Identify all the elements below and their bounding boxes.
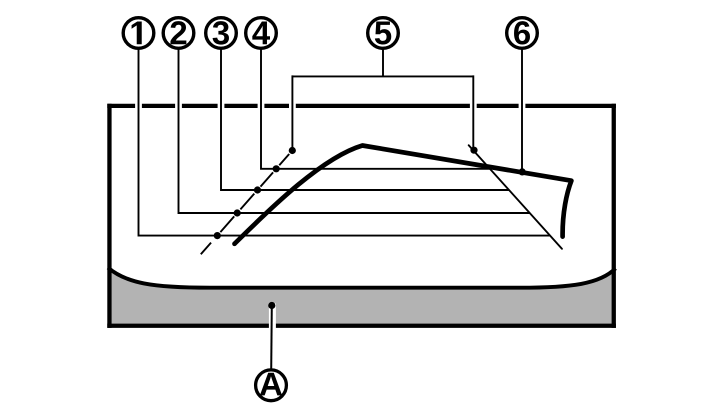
callout line 6 vertical	[521, 46, 523, 172]
white gap channel for A callout through bumper and border	[269, 304, 276, 333]
dot A	[268, 302, 275, 309]
callout circle 3	[206, 18, 237, 49]
bumper gray area A	[109, 268, 613, 326]
thick guide curve (left rise, peak, right descent, hook)	[235, 146, 572, 244]
digit 4	[252, 21, 270, 44]
callout line 2 (vertical + guide line 2 horizontal)	[179, 46, 530, 213]
callout line 1 (vertical + guide line 1 horizontal)	[139, 46, 551, 236]
letter A	[260, 373, 282, 396]
callout line 4 (vertical + guide line 4 horizontal)	[261, 46, 490, 169]
dot 5 right	[470, 147, 477, 154]
digit 5	[375, 21, 391, 44]
callout circle A	[256, 370, 287, 401]
callout circle 2	[163, 18, 194, 49]
digit 3	[213, 21, 229, 44]
dot 5 left	[289, 147, 296, 154]
dashed diagonal guide line (left)	[201, 154, 289, 254]
callout line 3 (vertical + guide line 3 horizontal)	[221, 46, 509, 190]
dot 1	[214, 232, 221, 239]
callout circle 6	[507, 18, 538, 49]
callout circle 1	[123, 18, 154, 49]
callout line 5 bracket	[292, 46, 473, 151]
callout circle 5	[368, 18, 399, 49]
dot 3	[254, 186, 261, 193]
thin diagonal guide line (right)	[469, 145, 562, 249]
dot 2	[234, 209, 241, 216]
digit 6	[514, 21, 530, 44]
bumper top edge curve	[108, 268, 616, 288]
monitor box left border	[107, 104, 111, 328]
monitor box top dashed border	[107, 104, 616, 108]
callout circle 4	[246, 18, 277, 49]
monitor box right border	[612, 104, 616, 328]
monitor box bottom border	[107, 324, 616, 328]
digit 2	[170, 21, 186, 44]
dot 6	[519, 168, 526, 175]
dot 4	[273, 165, 280, 172]
callout line A vertical	[270, 306, 273, 371]
digit 1	[132, 21, 142, 44]
